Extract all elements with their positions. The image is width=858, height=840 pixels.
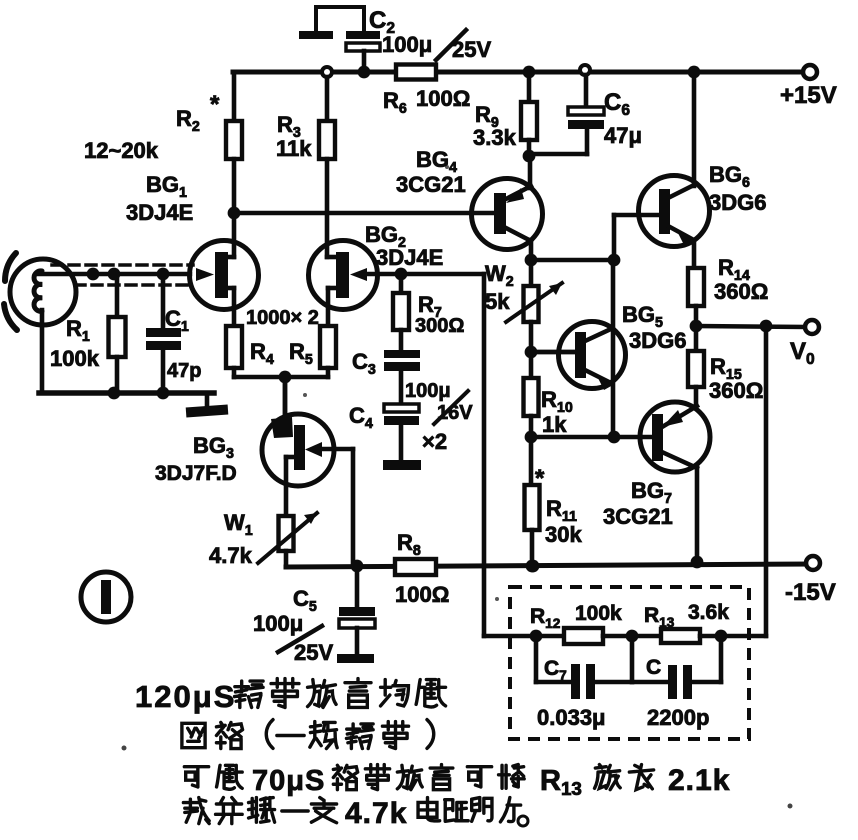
svg-text:30k: 30k <box>545 522 582 547</box>
svg-text:3DG6: 3DG6 <box>709 190 766 215</box>
svg-text:2200p: 2200p <box>647 705 709 730</box>
svg-text:12~20k: 12~20k <box>84 138 159 163</box>
svg-text:100k: 100k <box>50 346 100 371</box>
svg-text:100Ω: 100Ω <box>395 582 449 607</box>
svg-text:3.3k: 3.3k <box>473 125 517 150</box>
svg-text:100μ: 100μ <box>405 380 451 402</box>
svg-text:1k: 1k <box>542 412 567 437</box>
svg-text:1000× 2: 1000× 2 <box>246 307 319 329</box>
svg-text:3DG6: 3DG6 <box>629 328 686 353</box>
svg-text:100μ: 100μ <box>382 32 432 57</box>
svg-text:5k: 5k <box>485 289 510 314</box>
svg-text:2.1k: 2.1k <box>668 764 730 797</box>
svg-text:47p: 47p <box>167 360 201 382</box>
svg-text:+15V: +15V <box>780 82 837 109</box>
svg-text:3DJ4E: 3DJ4E <box>376 245 443 270</box>
svg-text:4.7k: 4.7k <box>209 543 253 568</box>
svg-text:300Ω: 300Ω <box>415 315 464 337</box>
svg-text:×2: ×2 <box>422 429 447 454</box>
svg-text:25V: 25V <box>294 640 333 665</box>
svg-text:*: * <box>535 465 545 492</box>
svg-text:100k: 100k <box>575 602 622 625</box>
svg-text:-15V: -15V <box>785 579 836 606</box>
svg-text:*: * <box>210 91 220 118</box>
svg-text:3DJ4E: 3DJ4E <box>126 200 193 225</box>
svg-text:0.033μ: 0.033μ <box>537 705 606 730</box>
svg-text:11k: 11k <box>276 136 312 161</box>
svg-text:3CG21: 3CG21 <box>603 504 673 529</box>
svg-text:3.6k: 3.6k <box>688 601 729 624</box>
svg-text:16V: 16V <box>437 402 473 424</box>
svg-text:47μ: 47μ <box>604 123 642 148</box>
svg-text:100Ω: 100Ω <box>416 86 470 111</box>
svg-text:70μS: 70μS <box>252 765 325 797</box>
svg-text:100μ: 100μ <box>253 611 303 636</box>
svg-text:120μS: 120μS <box>135 679 236 714</box>
svg-text:25V: 25V <box>452 37 491 62</box>
svg-text:360Ω: 360Ω <box>709 378 763 403</box>
svg-text:360Ω: 360Ω <box>714 279 768 304</box>
svg-text:3DJ7F.D: 3DJ7F.D <box>155 462 237 485</box>
svg-text:C: C <box>646 656 661 679</box>
svg-text:4.7k: 4.7k <box>345 797 407 830</box>
svg-text:3CG21: 3CG21 <box>396 172 466 197</box>
